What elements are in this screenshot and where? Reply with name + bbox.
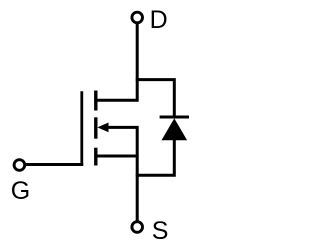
wire body arrow wire + source vertical down to S xyxy=(105,127,137,220)
transistor Q1 source channel bar xyxy=(94,148,97,166)
wire drain vertical + horizontal to channel xyxy=(96,24,137,101)
svg-text:S: S xyxy=(152,217,169,240)
transistor Q1 body arrow xyxy=(97,123,108,133)
svg-text:G: G xyxy=(11,177,30,205)
transistor Q1 gate plate xyxy=(80,91,83,166)
wire diode anode vertical + branch to source line xyxy=(136,139,175,175)
terminal D xyxy=(132,12,143,23)
transistor Q1 drain channel bar xyxy=(94,91,97,111)
wire drain-to-diode branch xyxy=(136,80,175,117)
terminal G xyxy=(14,160,25,171)
wire gate lead xyxy=(26,163,83,166)
diode D1 cathode bar xyxy=(160,116,189,119)
wire source horizontal xyxy=(96,155,139,158)
svg-text:D: D xyxy=(150,6,168,34)
transistor Q1 body channel bar xyxy=(94,117,97,138)
terminal S xyxy=(132,222,143,233)
diode D1 triangle xyxy=(162,118,188,140)
